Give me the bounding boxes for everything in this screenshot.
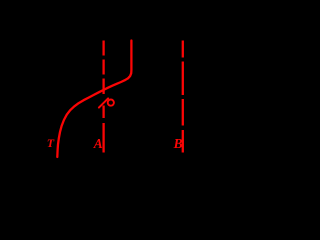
svg-text:A: A: [93, 136, 103, 151]
svg-text:B: B: [173, 136, 183, 151]
svg-text:T: T: [47, 136, 55, 150]
